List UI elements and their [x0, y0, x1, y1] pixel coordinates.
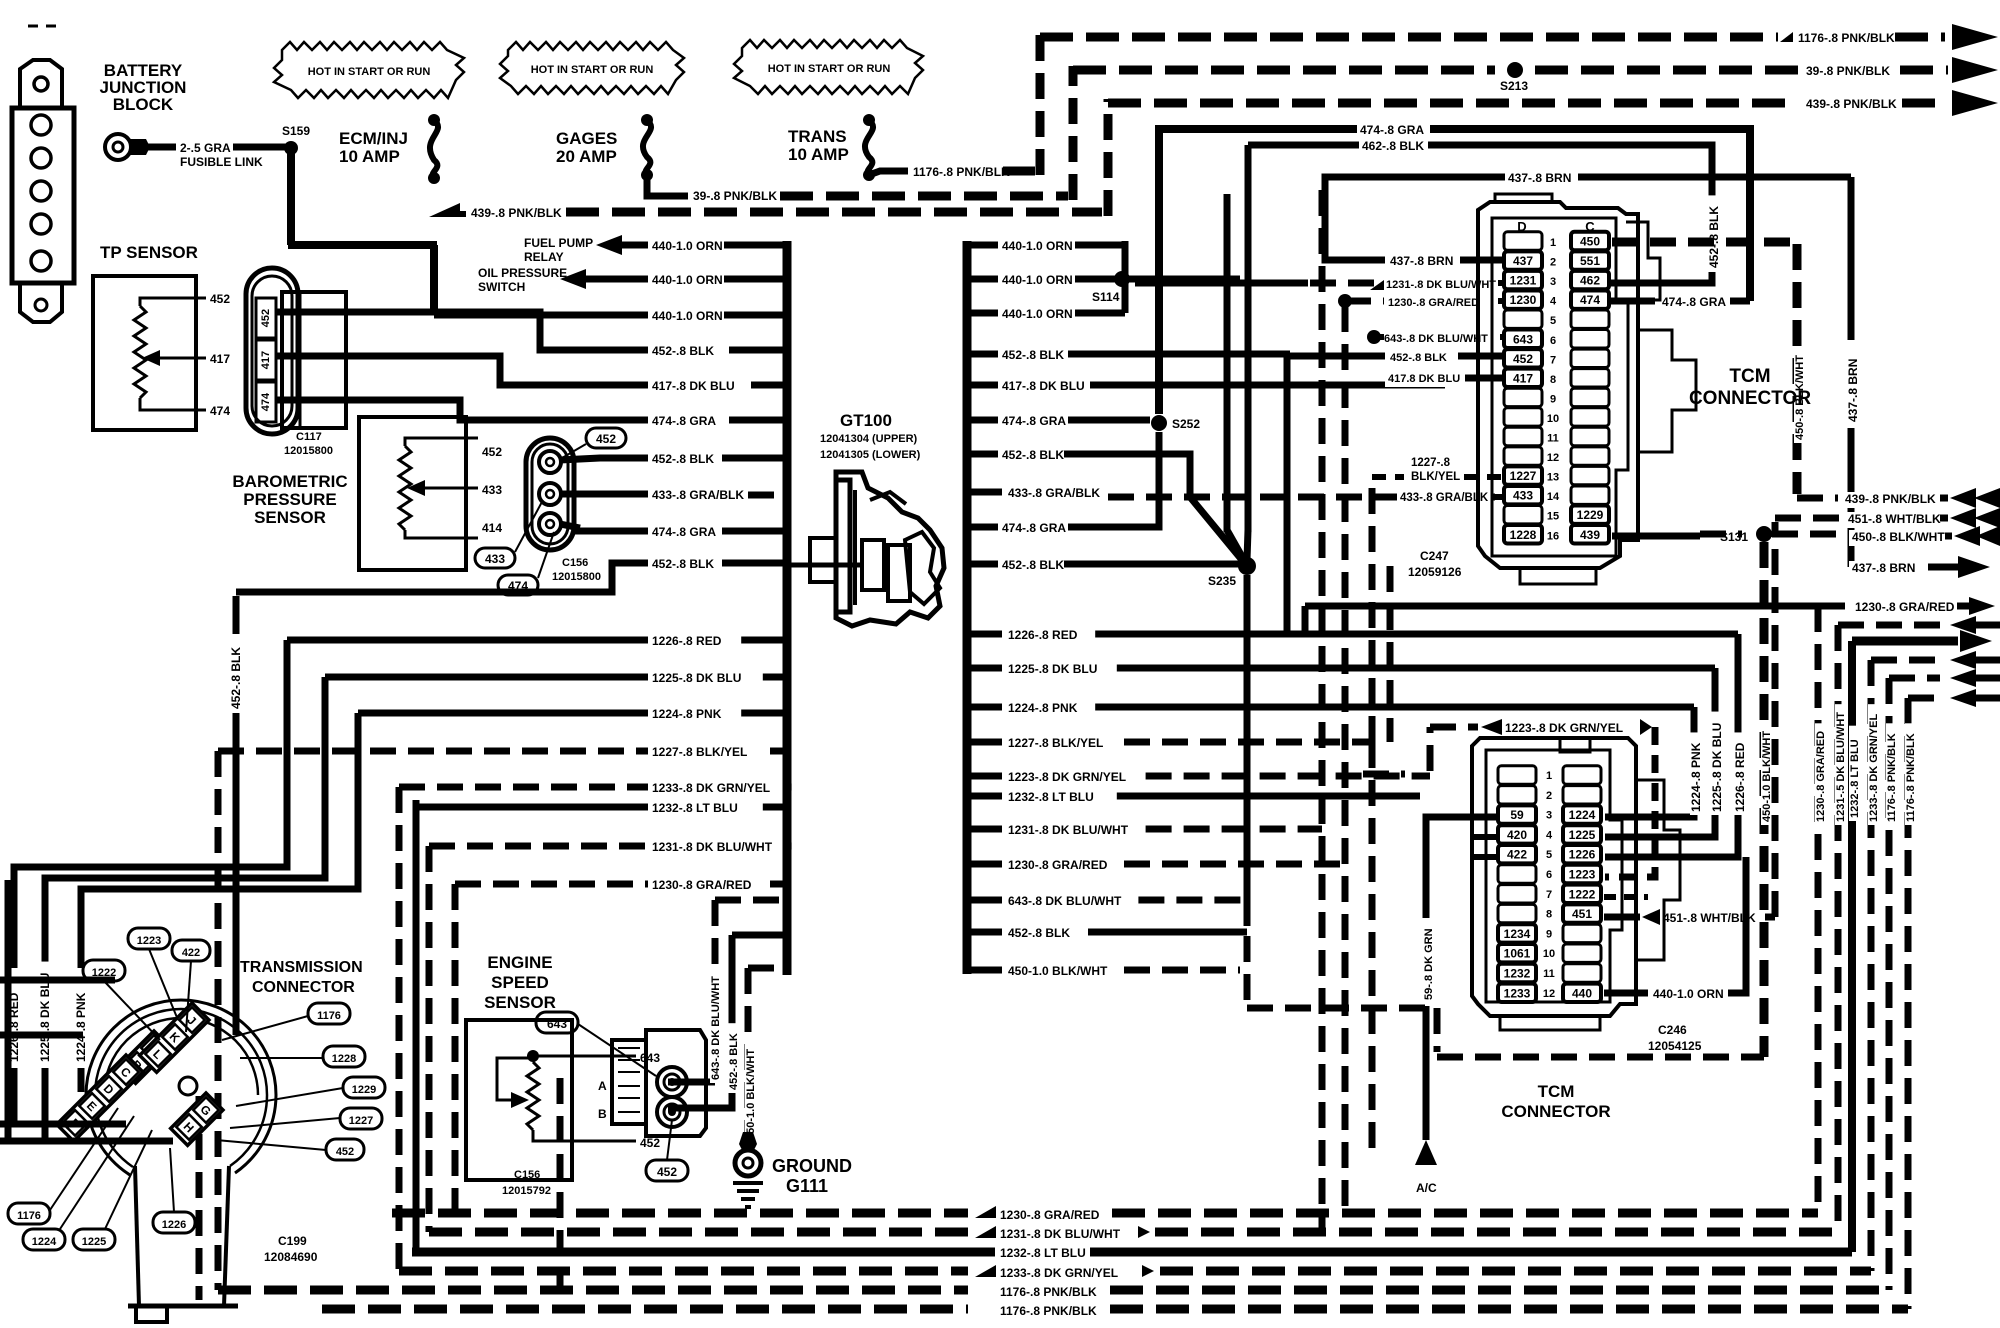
svg-text:1226-.8 RED: 1226-.8 RED	[1733, 742, 1747, 812]
svg-text:BLK/YEL: BLK/YEL	[1411, 471, 1460, 483]
barometric sensor potentiometer	[399, 446, 411, 530]
svg-text:1232-.8 LT BLU: 1232-.8 LT BLU	[1008, 790, 1094, 804]
svg-text:417.8 DK BLU: 417.8 DK BLU	[1388, 373, 1460, 385]
wire 1176-.8 PNK/BLK bottom row 1	[218, 1286, 968, 1295]
svg-text:6: 6	[1546, 869, 1552, 881]
C246 inner shell	[1486, 750, 1622, 1002]
svg-text:12059126: 12059126	[1408, 565, 1462, 579]
svg-text:HOT IN START OR RUN: HOT IN START OR RUN	[308, 66, 431, 78]
wire 433-.8 GRA/BLK dashed to TCM pin14	[967, 489, 1002, 496]
riser 1224 left	[81, 713, 358, 968]
svg-text:3: 3	[1550, 276, 1556, 288]
svg-text:1231-.8 DK BLU/WHT: 1231-.8 DK BLU/WHT	[652, 840, 773, 854]
svg-text:437-.8 BRN: 437-.8 BRN	[1846, 359, 1860, 422]
dashed wire 39-.8 PNK/BLK to top right with splice S213	[1073, 66, 1495, 75]
svg-text:8: 8	[1546, 909, 1552, 921]
wire 1222 stub dashes	[1604, 894, 1648, 900]
svg-text:1230-.8 GRA/RED: 1230-.8 GRA/RED	[1000, 1208, 1100, 1222]
callout 452 trans	[326, 1139, 364, 1160]
svg-text:C246: C246	[1658, 1023, 1687, 1037]
wire 450-.8 BLK/WHT output with splice S131	[1612, 533, 1700, 540]
svg-text:1222: 1222	[1569, 887, 1596, 901]
svg-text:1232-.8 LT BLU: 1232-.8 LT BLU	[1849, 739, 1861, 818]
svg-text:450-.8 BLK/WHT: 450-.8 BLK/WHT	[1852, 530, 1945, 544]
svg-text:15: 15	[1547, 511, 1559, 523]
wire 1232-.8 LT BLU left row	[416, 804, 648, 811]
svg-text:452: 452	[1513, 352, 1533, 366]
svg-text:1: 1	[1546, 770, 1552, 782]
connector C117	[246, 268, 298, 434]
svg-text:1225-.8 DK BLU: 1225-.8 DK BLU	[652, 671, 741, 685]
dashed riser 39-.8 PNK/BLK	[1069, 66, 1078, 200]
svg-text:452-.8 BLK: 452-.8 BLK	[1002, 448, 1064, 462]
svg-text:452-.8 BLK: 452-.8 BLK	[652, 452, 714, 466]
svg-text:S213: S213	[1500, 79, 1528, 93]
svg-text:CONNECTOR: CONNECTOR	[1689, 388, 1811, 409]
svg-text:1226-.8 RED: 1226-.8 RED	[1008, 628, 1078, 642]
svg-text:1233: 1233	[1504, 986, 1531, 1000]
wire 59-.8 DK GRN to A/C	[1426, 817, 1498, 918]
baro sensor leads 452 433 414	[440, 437, 478, 440]
svg-text:1176: 1176	[317, 1010, 341, 1022]
svg-text:450: 450	[1580, 235, 1600, 249]
svg-text:1228: 1228	[1510, 528, 1537, 542]
wire 1176 right riser B	[1905, 698, 1912, 1309]
svg-text:450-1.0 BLK/WHT: 450-1.0 BLK/WHT	[1761, 731, 1773, 822]
wire 1227-.8 BLK/YEL dashed riser down	[1369, 478, 1376, 742]
wire 1224-.8 PNK left row	[358, 710, 648, 717]
svg-text:1223: 1223	[137, 935, 161, 947]
svg-text:440-1.0 ORN: 440-1.0 ORN	[652, 309, 723, 323]
svg-text:ENGINE: ENGINE	[487, 953, 552, 972]
svg-text:1176: 1176	[17, 1210, 41, 1222]
riser 452 from ESS pin B	[668, 935, 732, 1108]
svg-text:3: 3	[1546, 810, 1552, 822]
svg-text:452-.8 BLK: 452-.8 BLK	[1707, 206, 1721, 268]
svg-text:SWITCH: SWITCH	[478, 280, 525, 294]
svg-text:S159: S159	[282, 124, 310, 138]
GT100 right bus	[963, 241, 972, 974]
svg-text:474-.8 GRA: 474-.8 GRA	[652, 414, 716, 428]
svg-text:16: 16	[1547, 530, 1559, 542]
TP sensor box	[93, 276, 196, 430]
riser 1233 dashed left	[396, 787, 403, 1271]
svg-text:643-.8 DK BLU/WHT: 643-.8 DK BLU/WHT	[710, 976, 722, 1080]
svg-text:1230-.8 GRA/RED: 1230-.8 GRA/RED	[652, 878, 752, 892]
svg-text:BAROMETRIC: BAROMETRIC	[232, 472, 347, 491]
svg-text:1224-.8 PNK: 1224-.8 PNK	[74, 992, 88, 1062]
wire 1226-.8 RED right row	[967, 631, 1002, 638]
wire 437-.8 BRN loop over connector	[1325, 177, 1851, 260]
svg-text:1225: 1225	[1569, 828, 1596, 842]
dashed link x1390	[1387, 566, 1394, 742]
svg-text:20 AMP: 20 AMP	[556, 147, 617, 166]
svg-text:1225-.8 DK BLU: 1225-.8 DK BLU	[1710, 723, 1724, 812]
svg-text:1227: 1227	[1510, 469, 1537, 483]
svg-text:433: 433	[485, 552, 505, 566]
svg-text:BLOCK: BLOCK	[113, 95, 174, 114]
C247 inner shell	[1492, 218, 1628, 556]
wire riser x1227 to S235	[1224, 194, 1231, 532]
wire 451-.8 WHT/BLK output	[1775, 515, 1840, 522]
svg-text:39-.8 PNK/BLK: 39-.8 PNK/BLK	[1806, 64, 1890, 78]
callout 1176 lower	[8, 1203, 50, 1224]
svg-text:G111: G111	[786, 1176, 828, 1196]
TP sensor potentiometer	[134, 306, 146, 398]
wire 462-.8 BLK riser to S235	[1245, 145, 1252, 532]
svg-text:1225-.8 DK BLU: 1225-.8 DK BLU	[38, 973, 52, 1062]
wire 1230-.8 GRA/RED TCM pin4	[1338, 294, 1352, 308]
svg-text:14: 14	[1547, 491, 1560, 503]
svg-text:1226-.8 RED: 1226-.8 RED	[652, 634, 722, 648]
ESS lead 452	[533, 1130, 636, 1141]
dashed wire S235 to S131 riser	[1244, 575, 1251, 926]
wire 1231 dashed riser down	[1319, 190, 1326, 1232]
svg-text:12015800: 12015800	[552, 571, 601, 583]
riser 1230 output	[1302, 606, 1309, 634]
stub wires into connector from left	[0, 977, 115, 984]
svg-text:1224-.8 PNK: 1224-.8 PNK	[1008, 701, 1078, 715]
svg-text:451-.8 WHT/BLK: 451-.8 WHT/BLK	[1848, 512, 1941, 526]
svg-text:1230: 1230	[1510, 293, 1537, 307]
svg-text:12015792: 12015792	[502, 1185, 551, 1197]
dashed riser 450 to S131	[1793, 244, 1802, 494]
svg-text:417-.8 DK BLU: 417-.8 DK BLU	[652, 379, 735, 393]
svg-text:RELAY: RELAY	[524, 250, 564, 264]
svg-text:643-.8 DK BLU/WHT: 643-.8 DK BLU/WHT	[1008, 894, 1122, 908]
svg-text:1227-.8 BLK/YEL: 1227-.8 BLK/YEL	[1008, 736, 1103, 750]
svg-text:433: 433	[1513, 489, 1533, 503]
wire 440-1.0 ORN from fuse	[434, 312, 648, 319]
svg-text:1224: 1224	[1569, 808, 1596, 822]
TCM connector C247 outline	[1478, 202, 1638, 568]
GT100 left bus	[783, 241, 792, 975]
wire 1230-.8 GRA/RED left row	[455, 881, 648, 888]
riser 1227 dashed left	[215, 751, 222, 1290]
svg-text:1224-.8 PNK: 1224-.8 PNK	[652, 707, 722, 721]
svg-text:1234: 1234	[1504, 927, 1531, 941]
svg-text:FUEL PUMP: FUEL PUMP	[524, 236, 593, 250]
TP sensor pin leads 452 417 474	[176, 297, 206, 300]
svg-text:643: 643	[547, 1017, 567, 1031]
svg-text:439-.8 PNK/BLK: 439-.8 PNK/BLK	[1845, 492, 1936, 506]
svg-text:1229: 1229	[1577, 508, 1604, 522]
svg-text:474-.8 GRA: 474-.8 GRA	[652, 525, 716, 539]
svg-text:1231: 1231	[1510, 274, 1537, 288]
svg-text:1225-.8 DK BLU: 1225-.8 DK BLU	[1008, 662, 1097, 676]
callout 474	[498, 575, 538, 595]
svg-text:12041305 (LOWER): 12041305 (LOWER)	[820, 449, 921, 461]
svg-text:1230-.8 GRA/RED: 1230-.8 GRA/RED	[1388, 297, 1479, 309]
ground G111 symbol	[739, 1132, 757, 1152]
wire 417-.8 DK BLU bus to TCM pin8	[967, 382, 998, 389]
svg-text:452: 452	[482, 445, 502, 459]
svg-text:GROUND: GROUND	[772, 1156, 852, 1176]
wire 1230-.8 GRA/RED right row	[967, 861, 1002, 868]
svg-text:39-.8 PNK/BLK: 39-.8 PNK/BLK	[693, 189, 777, 203]
svg-text:HOT IN START OR RUN: HOT IN START OR RUN	[531, 64, 654, 76]
svg-text:1226: 1226	[162, 1219, 186, 1231]
transmission connector pin strip J K L	[140, 1003, 209, 1072]
callout 1224	[23, 1229, 65, 1250]
svg-text:59-.8 DK GRN: 59-.8 DK GRN	[1423, 928, 1435, 1000]
wire 474-.8 GRA S252 to left row	[1068, 432, 1159, 527]
wire 452-.8 BLK bus to TCM pin7	[967, 351, 998, 358]
svg-text:440-1.0 ORN: 440-1.0 ORN	[652, 239, 723, 253]
wire 1176-.8 PNK/BLK from TRANS fuse	[869, 171, 908, 175]
riser 643 from ESS pin A	[712, 900, 719, 1078]
svg-text:SENSOR: SENSOR	[484, 993, 556, 1012]
svg-text:10 AMP: 10 AMP	[788, 145, 849, 164]
svg-text:417-.8 DK BLU: 417-.8 DK BLU	[1002, 379, 1085, 393]
svg-text:643: 643	[1513, 332, 1533, 346]
svg-text:1231-.8 DK BLU/WHT: 1231-.8 DK BLU/WHT	[1386, 279, 1496, 291]
wire 439-.8 PNK/BLK from ECM/INJ fuse	[429, 203, 466, 217]
svg-text:437-.8 BRN: 437-.8 BRN	[1508, 171, 1571, 185]
wire 1225-.8 DK BLU right row	[967, 665, 1002, 672]
wire 1232-.8 LT BLU right riser solid	[1848, 641, 1856, 1252]
svg-text:12084690: 12084690	[264, 1250, 318, 1264]
wire 1231-.8 DK BLU/WHT bottom row	[429, 1228, 968, 1237]
callout 1176 upper	[308, 1003, 350, 1024]
callout 452 ESS	[646, 1160, 688, 1181]
svg-text:452-.8 BLK: 452-.8 BLK	[1008, 926, 1070, 940]
svg-text:452: 452	[657, 1165, 677, 1179]
wire 1230-.8 GRA/RED output row	[1305, 603, 1455, 610]
dashed wire 439-.8 PNK/BLK to top right	[1108, 99, 1798, 108]
callout 1223	[128, 928, 170, 949]
svg-text:417: 417	[260, 351, 272, 369]
wire 451-.8 WHT/BLK from pin8	[1604, 914, 1640, 921]
wire 1227-.8 BLK/YEL left row	[218, 748, 648, 755]
svg-text:S252: S252	[1172, 417, 1200, 431]
wire 422 stub	[1474, 854, 1498, 860]
wire 1233-.8 DK GRN/YEL bottom row	[399, 1267, 968, 1276]
svg-text:439-.8 PNK/BLK: 439-.8 PNK/BLK	[471, 206, 562, 220]
svg-text:1061: 1061	[1504, 947, 1531, 961]
svg-text:CONNECTOR: CONNECTOR	[252, 979, 355, 996]
dashed vertical right of transmission connector	[557, 1078, 564, 1309]
svg-text:12015800: 12015800	[284, 445, 333, 457]
callout 1226	[153, 1212, 195, 1233]
svg-text:1231-.8 DK BLU/WHT: 1231-.8 DK BLU/WHT	[1000, 1227, 1121, 1241]
wire 1226-.8 RED riser to C246 pin5	[1605, 634, 1738, 857]
svg-text:433-.8 GRA/BLK: 433-.8 GRA/BLK	[1008, 486, 1100, 500]
svg-text:GT100: GT100	[840, 411, 892, 430]
svg-text:417: 417	[1513, 371, 1533, 385]
svg-text:433-.8 GRA/BLK: 433-.8 GRA/BLK	[1400, 492, 1489, 504]
svg-text:1176-.8 PNK/BLK: 1176-.8 PNK/BLK	[1000, 1285, 1097, 1299]
svg-text:474: 474	[210, 404, 230, 418]
svg-text:1233-.8 DK GRN/YEL: 1233-.8 DK GRN/YEL	[1000, 1266, 1118, 1280]
wire 643-.8 DK BLU/WHT left row	[715, 897, 787, 904]
svg-text:A/C: A/C	[1416, 1181, 1437, 1195]
svg-text:474: 474	[260, 392, 272, 411]
wire 452-.8 BLK from C156	[560, 458, 648, 460]
wire 440-1.0 ORN to fuel pump relay	[596, 235, 622, 255]
riser 1225 left	[45, 677, 325, 964]
wire 474-.8 GRA riser over TCM	[1159, 129, 1750, 414]
svg-text:1230-.8 GRA/RED: 1230-.8 GRA/RED	[1008, 858, 1108, 872]
svg-text:1233-.8 DK GRN/YEL: 1233-.8 DK GRN/YEL	[652, 781, 770, 795]
svg-text:1176-.8 PNK/BLK: 1176-.8 PNK/BLK	[1000, 1304, 1097, 1318]
svg-text:C117: C117	[296, 431, 322, 443]
svg-text:551: 551	[1580, 254, 1600, 268]
wire 474-.8 GRA label top	[1357, 123, 1430, 139]
dashed riser S131 down	[1760, 542, 1769, 1057]
svg-text:1224: 1224	[32, 1236, 57, 1248]
svg-text:1225: 1225	[82, 1236, 106, 1248]
wire 433-.8 GRA/BLK from C156	[560, 491, 648, 498]
svg-text:1230-.8 GRA/RED: 1230-.8 GRA/RED	[1815, 731, 1827, 822]
callout 643 ESS	[536, 1012, 578, 1033]
transmission connector pin strip C D E F	[57, 1055, 143, 1141]
wire 1233-.8 DK GRN/YEL left row	[399, 784, 648, 791]
wire 474-.8 GRA TCM pin4 right	[1610, 298, 1655, 305]
svg-text:437-.8 BRN: 437-.8 BRN	[1852, 561, 1915, 575]
svg-text:474-.8 GRA: 474-.8 GRA	[1002, 414, 1066, 428]
svg-text:10: 10	[1547, 413, 1559, 425]
svg-text:S131: S131	[1720, 530, 1748, 544]
wire 437-.8 BRN right vertical	[1848, 177, 1855, 340]
svg-text:1223-.8 DK GRN/YEL: 1223-.8 DK GRN/YEL	[1008, 770, 1126, 784]
dashed riser 439-.8 PNK/BLK	[1104, 99, 1113, 216]
svg-text:440-1.0 ORN: 440-1.0 ORN	[1002, 273, 1073, 287]
TCM connector C246 outline	[1472, 738, 1636, 1016]
transmission connector pin strip A B	[119, 1031, 171, 1083]
svg-text:462-.8 BLK: 462-.8 BLK	[1362, 139, 1424, 153]
svg-text:1231-.8 DK BLU/WHT: 1231-.8 DK BLU/WHT	[1008, 823, 1129, 837]
svg-text:C156: C156	[562, 557, 588, 569]
svg-text:5: 5	[1550, 315, 1556, 327]
wire 452-.8 BLK right row	[967, 929, 1002, 936]
svg-text:SPEED: SPEED	[491, 973, 549, 992]
svg-text:1224-.8 PNK: 1224-.8 PNK	[1689, 742, 1703, 812]
svg-text:2-.5 GRA: 2-.5 GRA	[180, 141, 231, 155]
svg-text:1232: 1232	[1504, 967, 1531, 981]
svg-text:S114: S114	[1092, 290, 1120, 304]
wire 2-.5 GRA fusible link	[146, 144, 176, 151]
svg-text:452-.8 BLK: 452-.8 BLK	[1002, 348, 1064, 362]
wire 437-.8 BRN TCM pin2	[1460, 257, 1504, 264]
wire 1225-.8 DK BLU riser to C246 pin4	[1605, 668, 1715, 837]
transmission connector pin strip G H	[171, 1093, 223, 1145]
ESS coil	[527, 1050, 539, 1062]
svg-text:440-1.0 ORN: 440-1.0 ORN	[652, 273, 723, 287]
svg-text:452: 452	[210, 292, 230, 306]
svg-text:437: 437	[1513, 254, 1533, 268]
riser 450 from ground G111	[745, 968, 752, 1140]
wire 1225-.8 DK BLU left row	[325, 674, 648, 681]
svg-text:1227: 1227	[349, 1115, 373, 1127]
wire 1230 dashed riser down	[1342, 306, 1349, 1213]
wire 439-.8 PNK/BLK output	[1797, 495, 1838, 502]
callout 1229	[343, 1077, 385, 1098]
callout 433	[475, 548, 515, 568]
wire 1223-.8 DK GRN/YEL dashed riser to C246	[1427, 727, 1434, 771]
svg-text:474: 474	[1580, 293, 1600, 307]
svg-text:450-1.0 BLK/WHT: 450-1.0 BLK/WHT	[1008, 964, 1108, 978]
callout 1225	[73, 1229, 115, 1250]
svg-text:422: 422	[1507, 848, 1527, 862]
svg-text:451-.8 WHT/BLK: 451-.8 WHT/BLK	[1663, 911, 1756, 925]
wire 1232-.8 LT BLU bottom row solid	[412, 1248, 995, 1257]
svg-text:1228: 1228	[332, 1053, 356, 1065]
svg-text:1233-.8 DK GRN/YEL: 1233-.8 DK GRN/YEL	[1868, 714, 1880, 822]
wire 474-.8 GRA from C156	[560, 524, 580, 528]
callout 452	[586, 428, 626, 448]
wire 437-.8 BRN output arrow	[1848, 566, 1851, 568]
svg-text:C156: C156	[514, 1169, 540, 1181]
wire 1223 dashed riser into pin6	[1605, 727, 1655, 877]
svg-text:433: 433	[482, 483, 502, 497]
svg-text:452-.8 BLK: 452-.8 BLK	[652, 557, 714, 571]
svg-text:12041304 (UPPER): 12041304 (UPPER)	[820, 433, 918, 445]
svg-text:439: 439	[1580, 528, 1600, 542]
svg-text:1229: 1229	[352, 1084, 376, 1096]
svg-text:59: 59	[1510, 808, 1524, 822]
wire 440-1.0 ORN to oil pressure switch	[560, 269, 586, 289]
svg-text:7: 7	[1546, 889, 1552, 901]
svg-text:8: 8	[1550, 374, 1556, 386]
wire 643-.8 DK BLU/WHT TCM pin6	[1367, 330, 1381, 344]
vertical 452-.8 BLK with label	[233, 596, 240, 634]
svg-text:S235: S235	[1208, 574, 1236, 588]
svg-text:451: 451	[1572, 907, 1592, 921]
svg-text:C199: C199	[278, 1234, 307, 1248]
wire 474-.8 GRA to splice S252	[967, 417, 998, 424]
wire 643-.8 DK BLU/WHT right row	[967, 897, 1002, 904]
svg-text:474-.8 GRA: 474-.8 GRA	[1360, 123, 1424, 137]
left edge vertical	[5, 880, 12, 1140]
splice S235	[1238, 557, 1256, 575]
wire 450-1.0 BLK/WHT right row	[967, 967, 1002, 974]
junction vertical S114	[1122, 241, 1129, 313]
svg-text:TCM: TCM	[1729, 366, 1770, 387]
riser 1230 dashed left	[452, 884, 459, 1213]
svg-text:440: 440	[1572, 986, 1592, 1000]
svg-text:12054125: 12054125	[1648, 1039, 1702, 1053]
callout 1228	[323, 1046, 365, 1067]
svg-text:452: 452	[336, 1146, 354, 1158]
svg-text:440-1.0 ORN: 440-1.0 ORN	[1002, 307, 1073, 321]
svg-text:452-.8 BLK: 452-.8 BLK	[229, 647, 243, 709]
dashed riser 1176-.8 PNK/BLK	[1036, 33, 1045, 175]
wire from S159 to ECM/INJ fuse feed	[287, 148, 295, 245]
wire 440-1.0 ORN right row3	[967, 310, 998, 317]
wire 1227-.8 BLK/YEL right row	[967, 739, 1002, 746]
svg-text:FUSIBLE LINK: FUSIBLE LINK	[180, 155, 263, 169]
wire 452-.8 BLK row to S235	[967, 561, 998, 568]
riser 1232 left solid	[413, 800, 420, 1252]
svg-text:TP SENSOR: TP SENSOR	[100, 243, 198, 262]
wire 440-1.0 ORN from pin12	[1604, 990, 1648, 997]
wire 1231 right riser and output arrow	[1835, 625, 1842, 1232]
svg-text:417: 417	[210, 352, 230, 366]
svg-text:4: 4	[1546, 829, 1553, 841]
wire 1233 right riser	[1868, 660, 1875, 1271]
svg-text:9: 9	[1550, 393, 1556, 405]
svg-text:PRESSURE: PRESSURE	[243, 490, 337, 509]
svg-text:12: 12	[1543, 988, 1555, 1000]
wire 474 C117 to GT100	[276, 400, 648, 420]
svg-text:452: 452	[640, 1136, 660, 1150]
svg-text:433-.8 GRA/BLK: 433-.8 GRA/BLK	[652, 488, 744, 502]
svg-text:643: 643	[640, 1051, 660, 1065]
connector C156 ESS	[612, 1040, 646, 1124]
svg-text:462: 462	[1580, 274, 1600, 288]
svg-text:474-.8 GRA: 474-.8 GRA	[1002, 521, 1066, 535]
